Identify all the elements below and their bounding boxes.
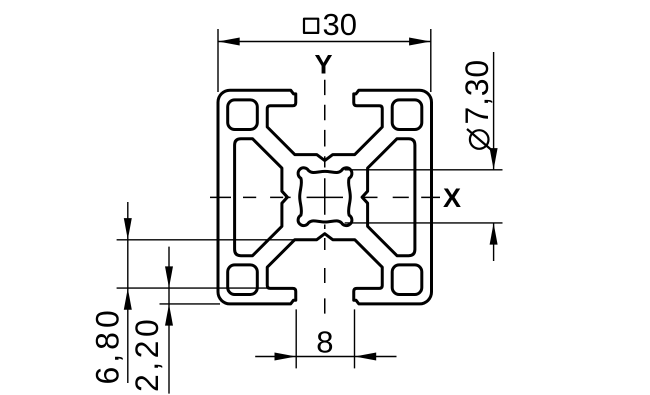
svg-text:8: 8 [316,325,333,360]
dimension sq30: square symbol [304,19,318,33]
right closed-slot cavity [362,139,415,256]
dimension sq30: right arrowhead [409,38,431,46]
dimension dia 7.30: upper arrowhead [490,148,498,170]
svg-text:X: X [443,183,461,213]
corner bore top-left [228,100,258,130]
dimension 2.20: upper arrowhead [165,266,173,288]
dimension 6.80: dimension line [127,202,129,383]
corner bore bottom-left [228,265,258,295]
dimension 6.80: extension line upper (slot floor) [117,239,295,241]
center bore (thread-forming clover hole) [298,168,352,226]
svg-text:7,30: 7,30 [459,59,495,124]
dimension 8: extension lines [296,309,354,368]
svg-text:6,80: 6,80 [90,306,126,384]
dimension dia 7.30: extension lines [345,170,503,223]
corner bore bottom-right [392,265,422,295]
dimension sq30: extension lines [218,29,431,92]
dimension 2.20: extension line (bottom face) [160,303,221,305]
dimension dia 7.30: rotated value text [459,59,495,150]
dimension 6.80: extension line lower (lip inner face) [117,287,270,289]
svg-text:2,20: 2,20 [129,316,165,392]
profile outer contour with top and bottom slot openings [218,90,432,304]
dimension 6.80: lower arrowhead [124,288,132,310]
dimension 2.20: dimension line [168,247,170,394]
dimension 2.20: lower arrowhead [165,304,173,326]
corner bore top-right [392,100,422,130]
dimension 8: right arrowhead [355,353,377,361]
dimension sq30: dimension line [218,41,431,43]
svg-text:30: 30 [323,7,357,42]
left closed-slot cavity [235,139,288,256]
dimension 2.20: rotated value text [129,316,165,392]
dimension 6.80: rotated value text [90,306,126,384]
dimension dia 7.30: lower arrowhead [490,223,498,245]
svg-text:Y: Y [315,50,333,80]
dimension dia 7.30: dimension line segments [493,52,495,261]
dimension 8: left arrowhead [275,353,297,361]
dimension 8: dimension line [255,356,396,358]
centerline Y axis (vertical dash-dot) [324,80,326,314]
dimension 6.80: upper arrowhead [124,218,132,240]
dimension sq30: left arrowhead [218,38,240,46]
centerline X axis (horizontal dash-dot) [210,196,440,198]
